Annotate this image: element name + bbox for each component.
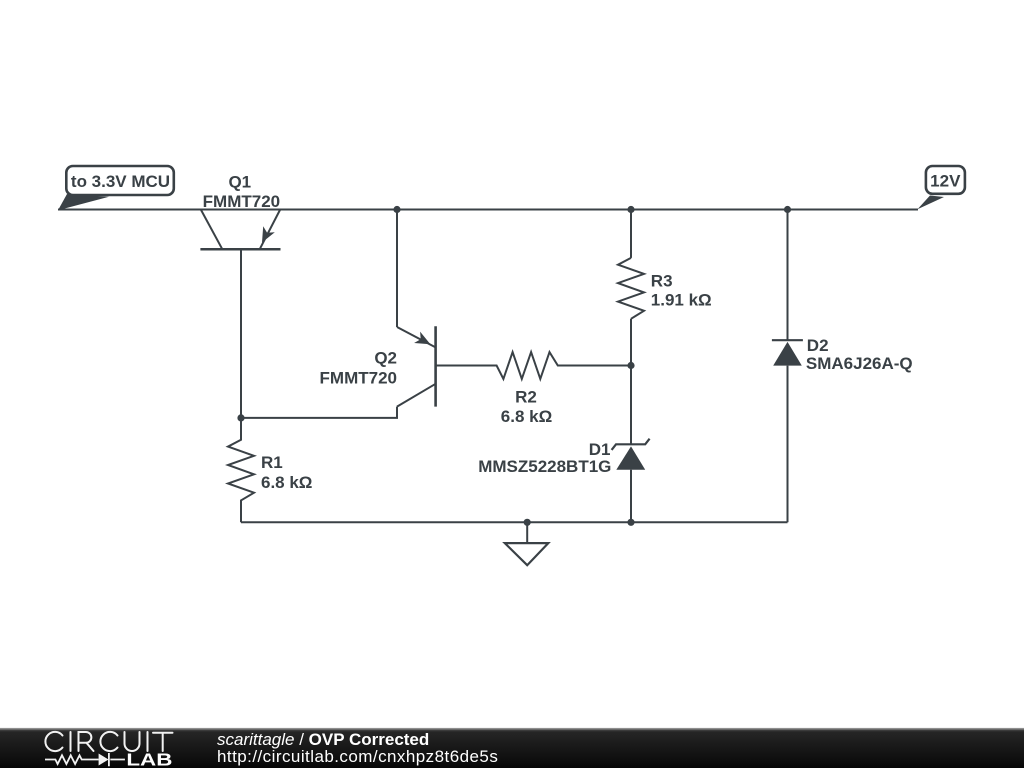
- wire: R3 top lead: [630, 210, 632, 258]
- wire: D1 bottom lead: [630, 470, 632, 523]
- svg-text:Q2: Q2: [374, 349, 397, 368]
- net flag: to 3.3V MCU: [58, 166, 174, 210]
- resistor R3 (1.91 kOhm vertical): [618, 258, 712, 319]
- footer bar: [0, 728, 1024, 768]
- svg-text:to 3.3V MCU: to 3.3V MCU: [71, 172, 170, 191]
- svg-text:6.8 kΩ: 6.8 kΩ: [261, 473, 312, 492]
- resistor R2 (6.8 kOhm horizontal): [436, 352, 631, 426]
- svg-text:D2: D2: [807, 336, 829, 355]
- wire: bottom ground rail: [241, 521, 788, 523]
- wire: D2 bottom lead: [787, 366, 789, 523]
- svg-text:FMMT720: FMMT720: [203, 192, 280, 211]
- transistor Q1 (PNP FMMT720): [200, 172, 280, 249]
- resistor R1 (6.8 kOhm vertical): [228, 418, 312, 522]
- wire: R3 bottom lead to node B: [630, 319, 632, 366]
- svg-text:R2: R2: [515, 388, 537, 407]
- svg-text:FMMT720: FMMT720: [320, 369, 397, 388]
- svg-text:SMA6J26A-Q: SMA6J26A-Q: [806, 354, 913, 373]
- wire: Q2 emitter feed from top rail: [396, 210, 398, 328]
- node: D1 / bottom rail: [627, 519, 634, 526]
- svg-text:LAB: LAB: [126, 750, 172, 768]
- wire: D2 top lead: [787, 210, 789, 341]
- svg-text:MMSZ5228BT1G: MMSZ5228BT1G: [478, 457, 611, 476]
- wire: Q2 collector to node A: [241, 407, 397, 418]
- wire: top 12V rail: [58, 209, 918, 211]
- svg-text:1.91 kΩ: 1.91 kΩ: [651, 291, 712, 310]
- svg-text:R1: R1: [261, 453, 283, 472]
- node: top rail / R3: [627, 206, 634, 213]
- zener diode D1 (MMSZ5228BT1G): [478, 439, 649, 476]
- wire: Q1 base down to node A: [240, 249, 242, 418]
- CircuitLab logo: CIRCUIT wordmark: [45, 732, 172, 751]
- svg-text:scarittagle / OVP Corrected: scarittagle / OVP Corrected: [217, 730, 429, 749]
- net flag: 12V: [918, 166, 965, 209]
- node: ground tap on bottom rail: [524, 519, 531, 526]
- wire: D1 top lead from node B: [630, 366, 632, 445]
- svg-text:http://circuitlab.com/cnxhpz8t: http://circuitlab.com/cnxhpz8t6de5s: [217, 747, 498, 766]
- node B: R2 / R3 / D1: [627, 362, 634, 369]
- diode D2 (SMA6J26A-Q TVS): [772, 336, 913, 373]
- svg-text:R3: R3: [651, 272, 673, 291]
- node: top rail / Q2 emitter: [393, 206, 400, 213]
- svg-text:12V: 12V: [930, 171, 961, 190]
- CircuitLab logo: resistor-diode strip: [45, 753, 125, 766]
- svg-text:Q1: Q1: [228, 172, 251, 191]
- ground: [505, 522, 549, 565]
- node A: Q1 base / R1 / Q2 collector: [237, 414, 244, 421]
- svg-text:6.8 kΩ: 6.8 kΩ: [501, 407, 552, 426]
- transistor Q2 (PNP FMMT720): [320, 326, 436, 406]
- node: top rail / D2: [784, 206, 791, 213]
